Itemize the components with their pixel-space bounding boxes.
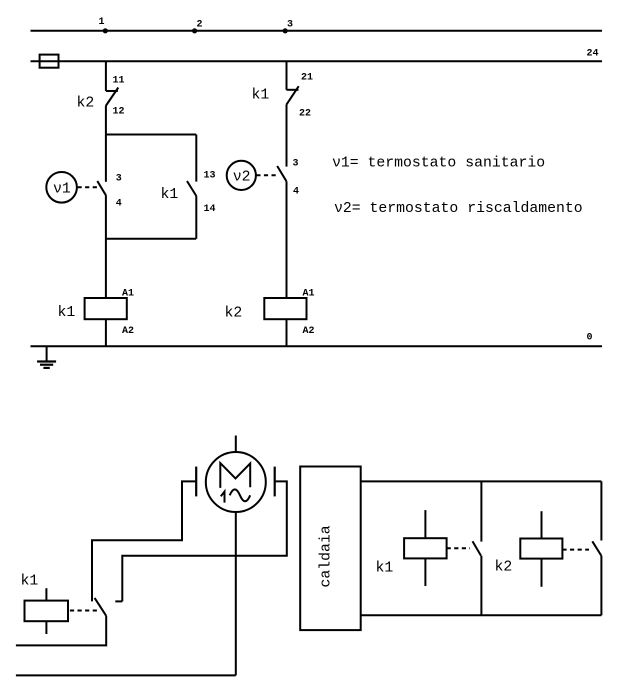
contact k2 lower right xyxy=(592,541,601,556)
wire motor top stem xyxy=(235,436,237,453)
legend line v2 xyxy=(334,201,583,217)
wire parallel box bottom xyxy=(105,238,196,240)
wire right edge upper xyxy=(600,481,602,540)
ground xyxy=(37,346,56,368)
node 2 xyxy=(192,20,203,34)
wire coil k1 to rail xyxy=(105,319,107,346)
svg-text:k1: k1 xyxy=(252,88,270,104)
svg-text:k1: k1 xyxy=(161,187,179,203)
wire divider lower xyxy=(480,556,482,616)
svg-text:22: 22 xyxy=(299,109,311,120)
caldaia box xyxy=(300,467,361,631)
wire branch B upper xyxy=(286,61,288,90)
wire v1 branch upper xyxy=(105,135,107,182)
contact k1 13-14 xyxy=(161,171,216,216)
fuse F1 xyxy=(40,55,59,68)
svg-text:12: 12 xyxy=(113,107,125,118)
svg-text:3: 3 xyxy=(293,158,299,169)
relay coil k1 lower right xyxy=(376,510,471,586)
contact k1 NC 21-22 xyxy=(252,73,314,120)
wire right loop top xyxy=(361,480,602,482)
coil k1 A1-A2 xyxy=(58,289,135,338)
wire contact common out xyxy=(16,616,106,646)
svg-text:13: 13 xyxy=(204,171,216,182)
wire motor bottom stem xyxy=(235,512,237,675)
svg-text:24: 24 xyxy=(587,49,599,60)
wire right edge lower xyxy=(600,556,602,616)
svg-text:4: 4 xyxy=(293,187,299,198)
terminal plate left xyxy=(195,467,197,497)
svg-text:ν1: ν1 xyxy=(53,182,71,198)
svg-text:k2: k2 xyxy=(225,306,243,322)
wire k1 13-14 branch lower xyxy=(195,196,197,239)
svg-text:k2: k2 xyxy=(495,560,513,576)
wire coil k2 to rail xyxy=(286,319,288,346)
svg-text:ν1= termostato sanitario: ν1= termostato sanitario xyxy=(332,156,545,172)
wire branch A to parallel box xyxy=(105,106,107,135)
wire v1 branch lower xyxy=(105,196,107,239)
node 3 xyxy=(283,20,293,34)
wire 0V rail xyxy=(31,333,603,347)
contact k1 changeover xyxy=(95,598,107,616)
wire branch A upper xyxy=(105,61,107,91)
svg-text:4: 4 xyxy=(116,199,122,210)
thermostat v2 xyxy=(227,161,277,190)
wire bottom long xyxy=(16,674,236,676)
svg-text:A2: A2 xyxy=(303,326,315,337)
contact v1 3-4 xyxy=(97,174,122,210)
svg-text:21: 21 xyxy=(301,73,313,84)
svg-text:k1: k1 xyxy=(21,574,39,590)
svg-text:A2: A2 xyxy=(122,326,134,337)
svg-text:k1: k1 xyxy=(58,305,76,321)
wire 24V rail xyxy=(31,49,603,62)
terminal plate right xyxy=(274,467,276,497)
svg-text:0: 0 xyxy=(587,333,593,344)
relay coil k2 lower right xyxy=(495,511,590,587)
contact k2 NC 11-12 xyxy=(77,76,125,118)
svg-text:A1: A1 xyxy=(303,289,315,300)
svg-text:k2: k2 xyxy=(77,96,95,112)
svg-text:3: 3 xyxy=(116,174,122,185)
legend line v1 xyxy=(332,156,545,172)
relay coil k1 lower left xyxy=(21,574,100,635)
wire motor left to contact xyxy=(92,481,196,601)
svg-text:3: 3 xyxy=(287,20,293,31)
wire top node line xyxy=(31,30,603,32)
wire right loop bottom xyxy=(361,614,602,616)
wire branch B to coil xyxy=(286,181,288,298)
wire motor right to contact xyxy=(115,481,286,601)
svg-text:14: 14 xyxy=(204,204,216,215)
svg-text:ν2: ν2 xyxy=(233,170,251,186)
coil k2 A1-A2 xyxy=(225,289,315,338)
wire divider upper xyxy=(480,481,482,541)
svg-text:caldaia: caldaia xyxy=(319,525,335,587)
node 1 xyxy=(99,17,108,33)
motor M1 xyxy=(206,452,266,512)
svg-text:k1: k1 xyxy=(376,561,394,577)
svg-text:2: 2 xyxy=(197,20,203,31)
contact v2 3-4 xyxy=(277,158,299,197)
contact k1 lower right xyxy=(473,541,482,556)
wire k1 13-14 branch upper xyxy=(195,135,197,182)
svg-text:1: 1 xyxy=(99,17,105,28)
wire branch A to coil xyxy=(105,239,107,298)
wire branch B middle xyxy=(286,105,288,167)
svg-text:A1: A1 xyxy=(122,289,134,300)
svg-text:11: 11 xyxy=(113,76,125,87)
wire parallel box top xyxy=(105,134,196,136)
svg-text:ν2= termostato riscaldamento: ν2= termostato riscaldamento xyxy=(334,201,583,217)
thermostat v1 xyxy=(46,172,97,203)
